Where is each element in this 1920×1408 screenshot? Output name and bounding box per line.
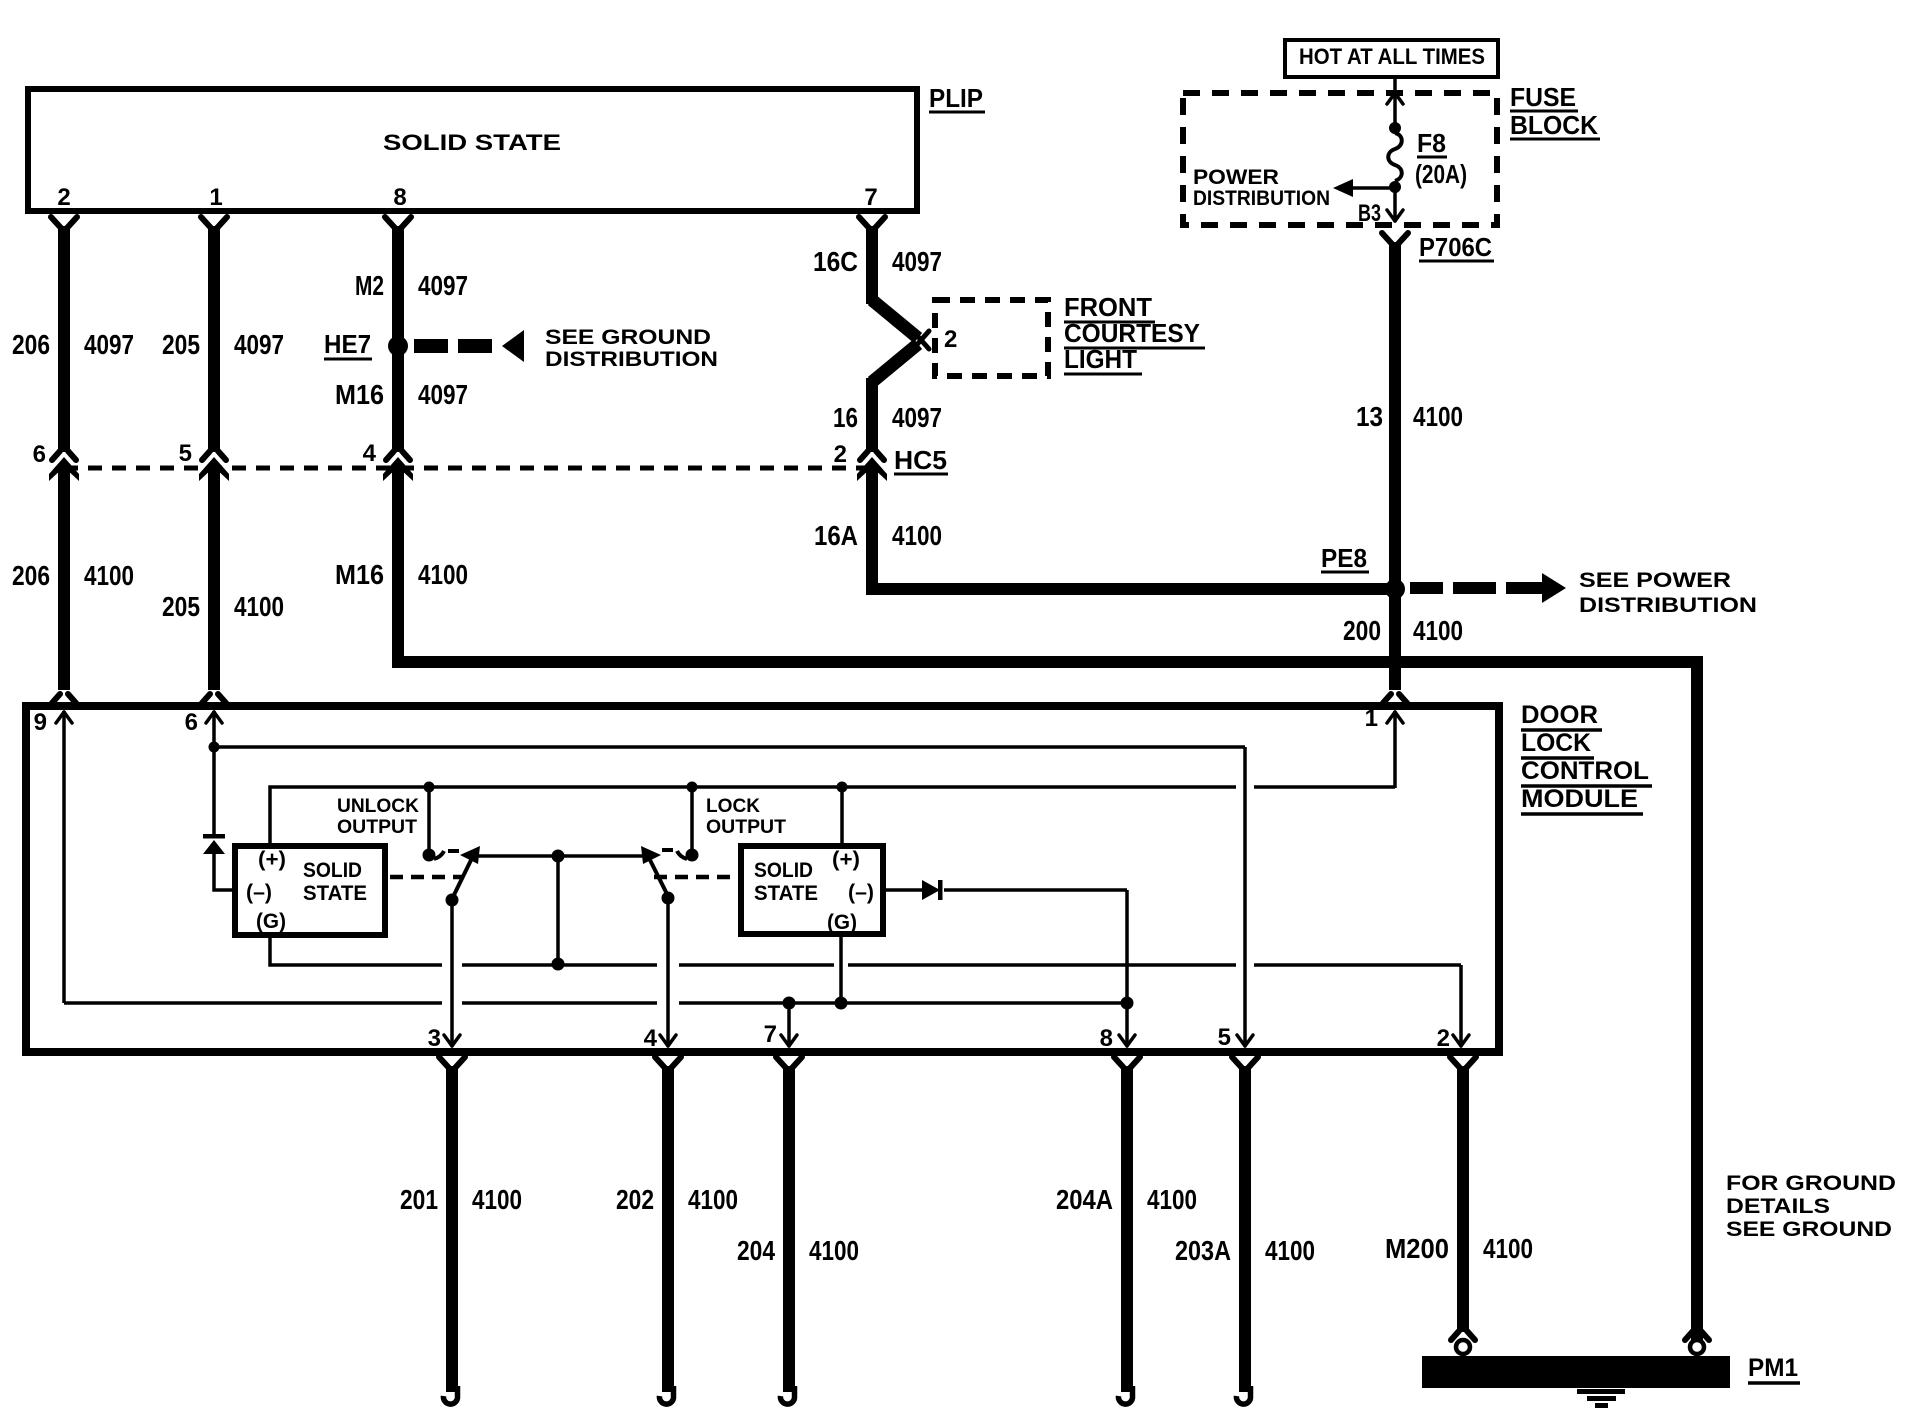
connector arrow cross at front courtesy light pin 2 (913, 331, 929, 349)
wire dashed see ground distribution with arrow at HE7 (414, 330, 524, 362)
svg-text:4100: 4100 (892, 520, 942, 551)
box HOT AT ALL TIMES (1285, 40, 1498, 77)
svg-text:4100: 4100 (1413, 615, 1463, 646)
svg-text:FOR GROUND: FOR GROUND (1726, 1172, 1896, 1195)
wire 206 circuit 4100 from HC5 pin 6 to module pin 9 (52, 466, 76, 703)
splice HE7 node dot (388, 336, 408, 356)
svg-text:SOLID: SOLID (303, 859, 362, 882)
fuse F8 element squiggle (1388, 133, 1402, 181)
junction dot G net at common rail drop (552, 958, 565, 971)
svg-text:16A: 16A (814, 520, 858, 551)
svg-text:2: 2 (57, 184, 70, 211)
svg-text:206: 206 (12, 329, 50, 360)
wire label 201 4100 (400, 1184, 522, 1215)
svg-text:201: 201 (400, 1184, 438, 1215)
svg-text:PM1: PM1 (1748, 1354, 1798, 1382)
svg-text:4097: 4097 (418, 379, 468, 410)
pin 4 arrow (660, 1035, 676, 1046)
wire power distribution tap with left arrow (1333, 179, 1395, 197)
wire 203A circuit 4100 from module pin 5 (1232, 1057, 1258, 1404)
switch unlock contact dot and hook (423, 849, 460, 862)
svg-text:16: 16 (833, 402, 858, 433)
svg-text:FUSE: FUSE (1510, 82, 1576, 112)
wire label M16 4100 (335, 559, 468, 590)
svg-text:3: 3 (428, 1025, 441, 1052)
svg-text:(+): (+) (258, 848, 286, 871)
wire 16C circuit 4097 from PLIP pin 7 jog to front courtesy light (859, 217, 918, 382)
junction dot lower net at pin 7 (783, 997, 796, 1010)
svg-text:LOCK: LOCK (706, 796, 760, 817)
svg-text:B3: B3 (1358, 200, 1381, 227)
wire label 202 4100 (616, 1184, 738, 1215)
wire common rail drop to G net (556, 856, 560, 964)
svg-text:7: 7 (864, 184, 877, 211)
box PLIP solid state module outline (28, 89, 917, 211)
box door lock control module outline (26, 706, 1499, 1052)
wire lock pivot to pin 4 (666, 898, 670, 1046)
pin 8 arrow (1119, 1035, 1135, 1046)
svg-text:DISTRIBUTION: DISTRIBUTION (1193, 187, 1330, 210)
wire label M2 4097 (355, 270, 468, 301)
wire label 206 4100 (12, 560, 134, 591)
svg-text:OUTPUT: OUTPUT (337, 817, 417, 838)
svg-text:4100: 4100 (809, 1235, 859, 1266)
diode D2 on lock minus net (922, 880, 943, 900)
svg-text:16C: 16C (813, 246, 858, 277)
svg-text:6: 6 (33, 441, 46, 468)
svg-text:4100: 4100 (84, 560, 134, 591)
svg-text:2: 2 (944, 326, 957, 353)
wire M200 circuit 4100 from module pin 2 to ground PM1 (1450, 1057, 1476, 1340)
svg-text:4100: 4100 (472, 1184, 522, 1215)
svg-text:4097: 4097 (418, 270, 468, 301)
svg-text:DISTRIBUTION: DISTRIBUTION (1579, 594, 1757, 617)
svg-text:DISTRIBUTION: DISTRIBUTION (545, 348, 718, 371)
wire M2 circuit 4097 from PLIP pin 8 to splice HE7 (385, 217, 411, 341)
note text SEE POWER DISTRIBUTION (1579, 569, 1757, 617)
wire switch common rail (477, 854, 648, 858)
svg-text:P706C: P706C (1419, 232, 1492, 262)
wire G net from unlock solid state (270, 938, 1461, 1046)
wire M16 circuit 4100 from HC5 pin 4 down and right to ground trunk (392, 466, 1703, 668)
pin 5 arrow (1237, 1035, 1253, 1046)
svg-text:(G): (G) (256, 910, 286, 933)
svg-text:9: 9 (34, 709, 47, 736)
wire pin 9 net lower horizontal (64, 1001, 1127, 1005)
svg-text:HOT AT ALL TIMES: HOT AT ALL TIMES (1299, 44, 1485, 69)
label PE8 (1321, 543, 1369, 573)
svg-text:5: 5 (179, 440, 192, 467)
wire 200 circuit 4100 from PE8 to module pin 1 (1383, 589, 1407, 703)
svg-text:BLOCK: BLOCK (1510, 110, 1598, 140)
junction dot pin 6 net (209, 742, 220, 753)
junction dot common rail (552, 850, 565, 863)
svg-text:SEE GROUND: SEE GROUND (1726, 1218, 1892, 1241)
label PM1 (1748, 1354, 1800, 1383)
svg-text:204: 204 (737, 1235, 775, 1266)
svg-text:13: 13 (1356, 401, 1383, 432)
svg-text:STATE: STATE (303, 882, 367, 905)
diode D1 on pin 6 net (203, 834, 225, 854)
pin 2 arrow (1453, 1035, 1469, 1046)
wire M16 circuit 4097 from HE7 to HC5 pin 4 (383, 352, 413, 481)
wire lock solid state plus riser (840, 787, 844, 843)
wire 206 circuit 4097 from PLIP pin 2 to HC5 pin 6 (49, 217, 79, 481)
svg-text:M200: M200 (1385, 1233, 1449, 1264)
switch lock blade with arrowhead (641, 846, 668, 896)
svg-text:(–): (–) (848, 881, 874, 904)
svg-text:DETAILS: DETAILS (1726, 1195, 1830, 1218)
label HE7 (324, 329, 372, 359)
svg-text:2: 2 (1437, 1025, 1450, 1052)
wire 204 circuit 4100 from module pin 7 (776, 1057, 802, 1404)
junction dot below fuse F8 (1389, 181, 1401, 193)
svg-text:4100: 4100 (688, 1184, 738, 1215)
svg-text:4100: 4100 (418, 559, 468, 590)
linkage dashed lock blade to lock solid state (654, 875, 736, 880)
wire 205 circuit 4100 from HC5 pin 5 to module pin 6 (202, 466, 226, 703)
svg-text:MODULE: MODULE (1521, 785, 1638, 813)
connector line HC5 dashed (64, 466, 872, 471)
wire pin 7 drop (787, 1003, 791, 1046)
svg-text:4100: 4100 (1265, 1235, 1315, 1266)
ground symbol below PM1 (1577, 1389, 1625, 1408)
wire lock output drop to contact (690, 787, 694, 850)
wire G riser of lock solid state (839, 934, 843, 1003)
svg-text:M16: M16 (335, 559, 384, 590)
svg-text:4097: 4097 (84, 329, 134, 360)
svg-text:4100: 4100 (1413, 401, 1463, 432)
svg-text:1: 1 (209, 184, 222, 211)
svg-text:LIGHT: LIGHT (1064, 344, 1137, 374)
svg-text:(+): (+) (832, 848, 860, 871)
svg-text:4100: 4100 (1147, 1184, 1197, 1215)
wire 204A circuit 4100 from module pin 8 (1114, 1057, 1140, 1404)
pin 6 arrow into module (206, 711, 222, 836)
wire label 203A 4100 (1175, 1235, 1315, 1266)
svg-text:5: 5 (1218, 1024, 1231, 1051)
wire label 204 4100 (737, 1235, 859, 1266)
label HC5 (894, 445, 948, 475)
wire B3 exit with arrow down (1387, 187, 1403, 221)
wire label 200 4100 (1343, 615, 1463, 646)
svg-text:SOLID: SOLID (754, 859, 813, 882)
junction dot lower net at pin 8 riser (1121, 997, 1134, 1010)
switch lock pivot dot (662, 892, 675, 905)
svg-text:STATE: STATE (754, 882, 818, 905)
wire 202 circuit 4100 from module pin 4 (655, 1057, 681, 1404)
ring terminal ground trunk at PM1 (1685, 1331, 1709, 1354)
svg-text:4: 4 (363, 440, 377, 467)
label DOOR LOCK CONTROL MODULE (1521, 701, 1652, 814)
svg-text:M2: M2 (355, 270, 384, 301)
wire 16A circuit 4100 from HC5 pin 2 down and right to splice PE8 (866, 466, 1395, 595)
svg-text:200: 200 (1343, 615, 1381, 646)
svg-text:2: 2 (834, 441, 847, 468)
svg-text:4097: 4097 (892, 246, 942, 277)
svg-text:8: 8 (1100, 1025, 1113, 1052)
junction dot plus rail at unlock contact (424, 782, 435, 793)
svg-text:6: 6 (185, 709, 198, 736)
box fuse block dashed (1183, 93, 1497, 225)
wire fuse feed inside fuse block with arrow up (1387, 79, 1403, 128)
svg-text:4: 4 (644, 1025, 658, 1052)
svg-text:UNLOCK: UNLOCK (337, 796, 419, 817)
box front courtesy light dashed (935, 300, 1048, 376)
svg-text:4097: 4097 (892, 402, 942, 433)
svg-text:4100: 4100 (234, 591, 284, 622)
label LOCK OUTPUT (706, 796, 786, 838)
wire minus net of lock solid state through diode to pin 8 (883, 890, 1127, 1046)
label F8 (1417, 128, 1447, 158)
pin 3 arrow (444, 1035, 460, 1046)
svg-text:CONTROL: CONTROL (1521, 757, 1649, 785)
wire pin 5 drop vertical (1243, 747, 1247, 1046)
wire plus net horizontal rail (270, 787, 1395, 843)
label P706C (1419, 232, 1494, 262)
wire dashed see power distribution with arrow at PE8 (1410, 573, 1566, 603)
svg-text:SEE GROUND: SEE GROUND (545, 326, 711, 349)
wire 13 circuit 4100 from P706C to splice PE8 (1382, 233, 1408, 589)
svg-text:205: 205 (162, 591, 200, 622)
note text SEE GROUND DISTRIBUTION (545, 326, 718, 371)
svg-text:SEE POWER: SEE POWER (1579, 569, 1731, 592)
ring terminal M200 at PM1 (1456, 1340, 1470, 1354)
switch unlock pivot dot (446, 894, 459, 907)
pin 7 arrow (781, 1035, 797, 1046)
wire label 16A 4100 (814, 520, 942, 551)
label PLIP (929, 83, 985, 113)
wire unlock output drop to contact (427, 787, 431, 850)
label FUSE BLOCK (1510, 82, 1600, 140)
svg-text:204A: 204A (1056, 1184, 1113, 1215)
wire label 206 4097 (12, 329, 134, 360)
svg-text:206: 206 (12, 560, 50, 591)
switch unlock blade with arrowhead (452, 846, 480, 899)
svg-text:4100: 4100 (1483, 1233, 1533, 1264)
junction dot plus rail at lock contact (687, 782, 698, 793)
ground bus bar PM1 (1422, 1356, 1730, 1388)
svg-text:HE7: HE7 (324, 329, 371, 359)
wire label 204A 4100 (1056, 1184, 1197, 1215)
svg-text:LOCK: LOCK (1521, 729, 1591, 757)
pin 9 arrow into module (56, 711, 72, 1003)
svg-text:7: 7 (764, 1021, 777, 1048)
svg-text:202: 202 (616, 1184, 654, 1215)
box unlock solid state (235, 846, 385, 935)
svg-text:DOOR: DOOR (1521, 701, 1598, 729)
wire label 13 4100 (1356, 401, 1463, 432)
wire label M16 4097 (335, 379, 468, 410)
svg-text:(20A): (20A) (1415, 159, 1467, 189)
wire pin6 net horizontal to pin 5 drop (214, 745, 1245, 749)
junction dot lower net at lock G riser (835, 997, 848, 1010)
junction dot plus rail at lock solid state (837, 782, 848, 793)
svg-text:1: 1 (1365, 705, 1378, 732)
svg-text:PE8: PE8 (1321, 543, 1367, 573)
switch lock contact dot and hook (662, 849, 699, 862)
label FRONT COURTESY LIGHT (1064, 292, 1205, 374)
label lock solid state pins and name (754, 848, 874, 934)
label unlock solid state pins and name (246, 848, 367, 933)
pin 1 arrow into module (1387, 711, 1403, 788)
svg-text:POWER: POWER (1193, 166, 1279, 189)
wire label M200 4100 (1385, 1233, 1533, 1264)
svg-text:HC5: HC5 (894, 445, 947, 475)
note text FOR GROUND DETAILS SEE GROUND (1726, 1172, 1896, 1241)
svg-text:M16: M16 (335, 379, 384, 410)
wire unlock pivot to pin 3 (450, 900, 454, 1046)
svg-text:PLIP: PLIP (929, 83, 983, 113)
svg-text:(G): (G) (827, 911, 857, 934)
svg-text:(–): (–) (246, 881, 272, 904)
svg-text:SOLID STATE: SOLID STATE (383, 130, 561, 155)
svg-text:F8: F8 (1417, 128, 1446, 158)
wire pin6 net below diode to minus pin of unlock solid state (214, 854, 232, 890)
svg-text:OUTPUT: OUTPUT (706, 817, 786, 838)
box lock solid state (741, 846, 883, 934)
svg-text:205: 205 (162, 329, 200, 360)
wire ground trunk vertical down right side to PM1 (1691, 656, 1703, 1342)
wire 205 circuit 4097 from PLIP pin 1 to HC5 pin 5 (199, 217, 229, 481)
wire 16 circuit 4097 from courtesy light jog to HC5 pin 2 (857, 378, 887, 481)
junction dot above fuse F8 (1389, 122, 1401, 134)
label UNLOCK OUTPUT (337, 796, 419, 838)
svg-text:203A: 203A (1175, 1235, 1231, 1266)
wire label 16 4097 (833, 402, 942, 433)
splice PE8 node dot (1385, 579, 1405, 599)
wire 201 circuit 4100 from module pin 3 (439, 1057, 465, 1404)
note text POWER DISTRIBUTION (1193, 166, 1330, 210)
wire label 205 4097 (162, 329, 284, 360)
linkage dashed unlock solid state to blade (390, 875, 462, 880)
svg-text:4097: 4097 (234, 329, 284, 360)
wire label 205 4100 (162, 591, 284, 622)
wire label 16C 4097 (813, 246, 942, 277)
svg-text:8: 8 (393, 184, 406, 211)
